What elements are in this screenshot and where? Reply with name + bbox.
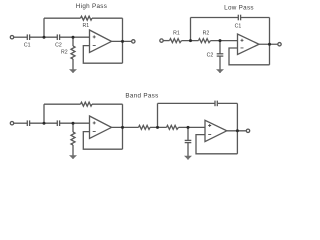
svg-text:C1: C1 — [24, 43, 31, 49]
svg-text:Low Pass: Low Pass — [224, 5, 254, 12]
svg-text:R2: R2 — [61, 50, 68, 56]
svg-text:R2: R2 — [203, 30, 210, 36]
svg-text:R1: R1 — [82, 23, 89, 29]
svg-text:C1: C1 — [235, 24, 242, 30]
svg-text:R1: R1 — [173, 30, 180, 36]
svg-text:C2: C2 — [55, 43, 62, 49]
svg-text:High Pass: High Pass — [76, 3, 107, 10]
svg-text:C2: C2 — [207, 53, 214, 59]
svg-text:Band Pass: Band Pass — [125, 93, 158, 100]
